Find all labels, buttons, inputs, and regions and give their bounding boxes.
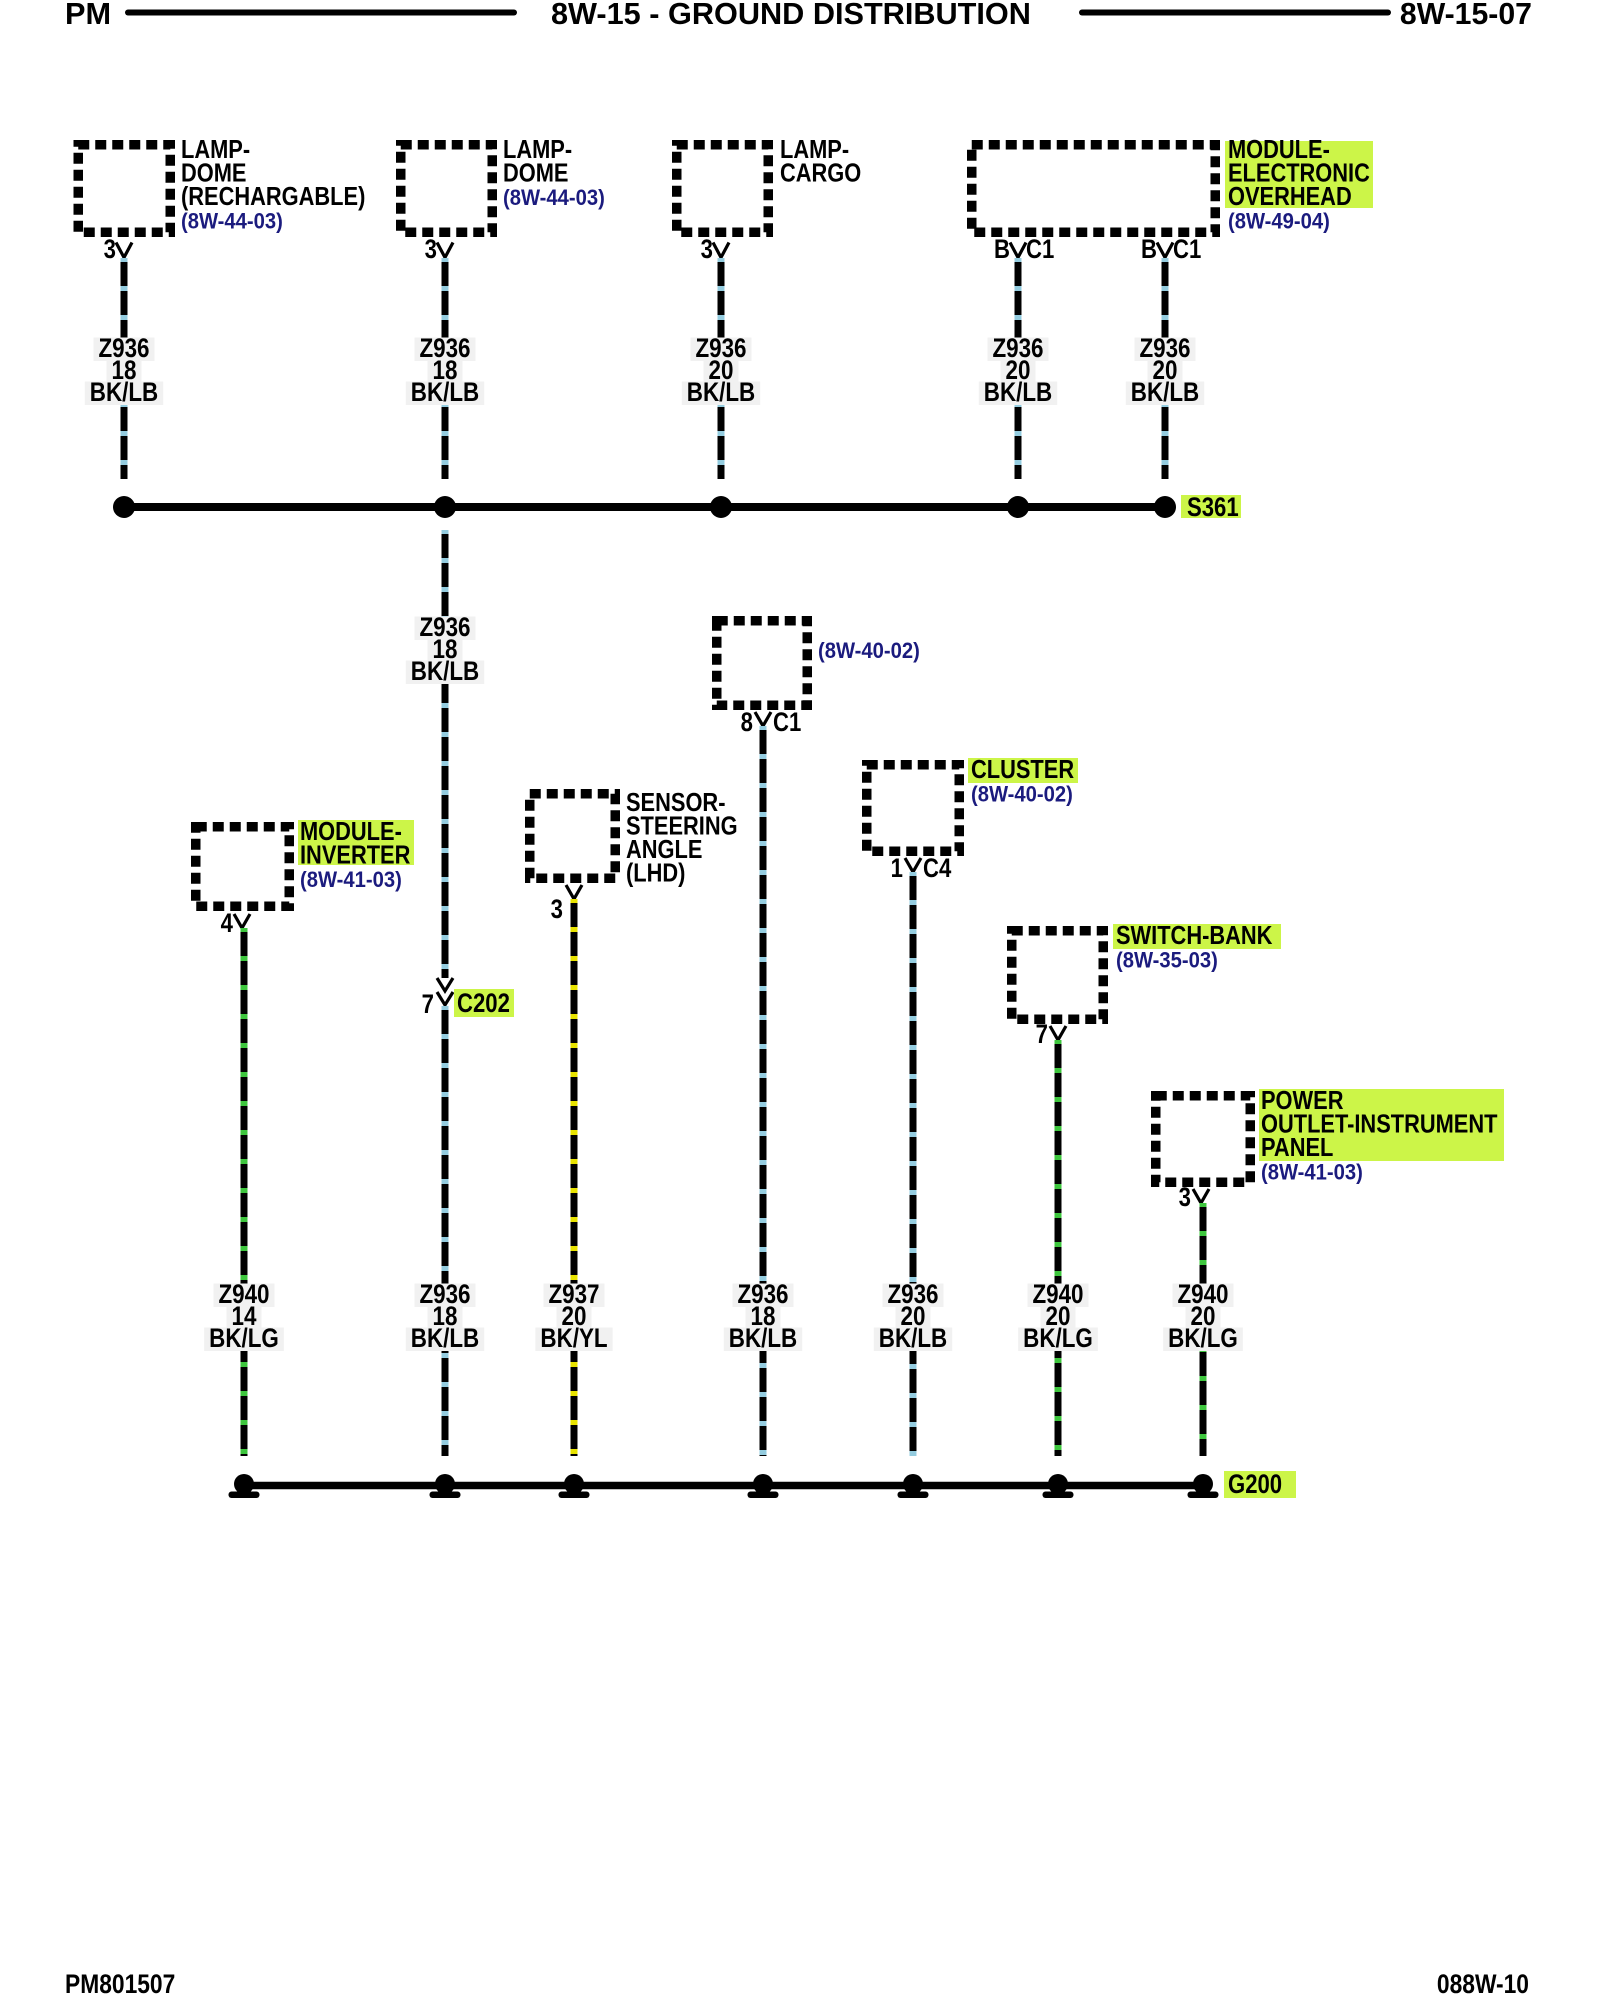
wire label Z936 18 BK/LB	[93, 338, 154, 362]
svg-text:BK/LB: BK/LB	[879, 1324, 947, 1353]
svg-text:PANEL: PANEL	[1261, 1133, 1333, 1162]
svg-text:C1: C1	[1026, 235, 1055, 265]
svg-text:(8W-44-03): (8W-44-03)	[503, 186, 605, 210]
wire label Z937 20 BK/YL	[543, 1284, 604, 1308]
wire Z936 18 BK/LB	[760, 726, 767, 1456]
wire label Z936 20 BK/LB	[987, 338, 1048, 362]
connector box SWITCH-BANK	[1012, 931, 1104, 1020]
junction dot at x=445	[434, 496, 456, 518]
ground bus G200	[244, 1482, 1204, 1490]
svg-text:PM801507: PM801507	[65, 1969, 175, 1999]
wire label Z940 20 BK/LG	[1172, 1284, 1233, 1308]
svg-text:B: B	[994, 235, 1010, 265]
ground stud at x=445	[435, 1474, 455, 1494]
connector box LAMP-CARGO	[677, 145, 769, 233]
connector box (8W-40-02)	[717, 621, 808, 706]
svg-text:3: 3	[701, 235, 713, 265]
wire label Z936 18 BK/LB	[732, 1284, 793, 1308]
svg-text:B: B	[1141, 235, 1157, 265]
junction dot at x=1165	[1154, 496, 1176, 518]
wire Z936 18 BK/LB (S361 to C202)	[442, 530, 449, 978]
svg-text:SWITCH-BANK: SWITCH-BANK	[1116, 921, 1273, 950]
wire Z936 20 BK/LB	[1162, 258, 1169, 479]
svg-text:3: 3	[425, 235, 437, 265]
wire Z940 20 BK/LG	[1200, 1203, 1207, 1456]
svg-text:(RECHARGABLE): (RECHARGABLE)	[181, 182, 365, 211]
svg-text:C4: C4	[923, 854, 952, 884]
wire label Z936 20 BK/LB	[690, 338, 751, 362]
svg-text:(8W-49-04): (8W-49-04)	[1228, 210, 1330, 234]
svg-text:BK/LG: BK/LG	[1023, 1324, 1093, 1353]
svg-text:BK/LB: BK/LB	[411, 657, 479, 686]
connector box MODULE-ELECTRONIC OVERHEAD	[972, 145, 1216, 233]
svg-text:3: 3	[551, 895, 563, 925]
svg-text:C202: C202	[457, 989, 510, 1019]
splice label S361	[1181, 495, 1241, 518]
wire Z937 20 BK/YL	[571, 899, 578, 1456]
ground stud at x=913	[903, 1474, 923, 1494]
svg-text:OVERHEAD: OVERHEAD	[1228, 182, 1352, 211]
svg-text:(8W-41-03): (8W-41-03)	[1261, 1161, 1363, 1185]
svg-text:8W-15 - GROUND DISTRIBUTION: 8W-15 - GROUND DISTRIBUTION	[551, 0, 1031, 31]
connector box POWER OUTLET-INSTRUMENT PANEL	[1156, 1096, 1251, 1183]
ground stud at x=574	[564, 1474, 584, 1494]
svg-text:S361: S361	[1187, 493, 1239, 523]
ground stud at x=763	[753, 1474, 773, 1494]
wire Z936 20 BK/LB	[910, 872, 917, 1456]
svg-text:(8W-40-02): (8W-40-02)	[971, 783, 1073, 807]
ground stud at x=244	[234, 1474, 254, 1494]
svg-text:DOME: DOME	[503, 159, 568, 188]
ground stud at x=1203	[1193, 1474, 1213, 1494]
svg-text:BK/LB: BK/LB	[729, 1324, 797, 1353]
svg-text:7: 7	[422, 990, 434, 1020]
wire Z936 20 BK/LB	[718, 258, 725, 479]
svg-text:BK/LB: BK/LB	[411, 1324, 479, 1353]
connector box MODULE-INVERTER	[196, 827, 290, 907]
svg-text:BK/LG: BK/LG	[209, 1324, 279, 1353]
svg-text:CLUSTER: CLUSTER	[971, 755, 1074, 784]
svg-text:(8W-35-03): (8W-35-03)	[1116, 949, 1218, 973]
svg-text:(8W-40-02): (8W-40-02)	[818, 639, 920, 663]
connector box LAMP-DOME (RECHARGABLE)	[78, 145, 170, 233]
wire label Z936 18 BK/LB	[414, 1284, 475, 1308]
wire label Z940 14 BK/LG	[213, 1284, 274, 1308]
svg-text:(8W-41-03): (8W-41-03)	[300, 868, 402, 892]
svg-text:G200: G200	[1228, 1470, 1282, 1500]
connector box CLUSTER	[867, 765, 960, 852]
header rule left	[128, 10, 514, 16]
svg-text:7: 7	[1036, 1020, 1048, 1050]
wire Z936 18 BK/LB	[442, 258, 449, 479]
connector box SENSOR-STEERING ANGLE (LHD)	[530, 794, 616, 879]
wire label Z936 18 BK/LB	[414, 617, 475, 641]
svg-text:(LHD): (LHD)	[626, 859, 685, 888]
svg-text:3: 3	[1179, 1183, 1191, 1213]
inline connector C202	[437, 978, 453, 991]
wire Z940 14 BK/LG	[241, 928, 248, 1456]
svg-text:4: 4	[221, 909, 234, 939]
svg-text:1: 1	[891, 854, 904, 884]
svg-text:088W-10: 088W-10	[1437, 1969, 1529, 1999]
header rule right	[1082, 10, 1388, 16]
svg-text:BK/LB: BK/LB	[984, 378, 1052, 407]
svg-text:(8W-44-03): (8W-44-03)	[181, 210, 283, 234]
svg-text:8W-15-07: 8W-15-07	[1400, 0, 1532, 31]
wire Z940 20 BK/LG	[1055, 1040, 1062, 1456]
svg-text:INVERTER: INVERTER	[300, 841, 410, 870]
junction dot at x=1018	[1007, 496, 1029, 518]
svg-text:C1: C1	[1173, 235, 1202, 265]
svg-text:PM: PM	[65, 0, 111, 31]
connector box LAMP-DOME	[401, 145, 493, 233]
wire label Z940 20 BK/LG	[1027, 1284, 1088, 1308]
svg-text:BK/LG: BK/LG	[1168, 1324, 1238, 1353]
svg-text:BK/LB: BK/LB	[411, 378, 479, 407]
ground label G200	[1224, 1471, 1296, 1498]
splice bus S361	[124, 503, 1165, 511]
svg-text:3: 3	[104, 235, 116, 265]
svg-text:BK/LB: BK/LB	[1131, 378, 1199, 407]
svg-text:BK/LB: BK/LB	[90, 378, 158, 407]
svg-text:CARGO: CARGO	[780, 159, 861, 188]
ground stud at x=1058	[1048, 1474, 1068, 1494]
wire label Z936 18 BK/LB	[414, 338, 475, 362]
svg-text:BK/YL: BK/YL	[540, 1324, 607, 1353]
wire Z936 20 BK/LB	[1015, 258, 1022, 479]
wire Z936 18 BK/LB	[121, 258, 128, 479]
svg-text:BK/LB: BK/LB	[687, 378, 755, 407]
svg-text:8: 8	[741, 708, 753, 738]
wire label Z936 20 BK/LB	[882, 1284, 943, 1308]
junction dot at x=721	[710, 496, 732, 518]
junction dot at x=124	[113, 496, 135, 518]
svg-text:C1: C1	[773, 708, 802, 738]
wire Z936 18 BK/LB (C202 to G200)	[442, 1006, 449, 1456]
wire label Z936 20 BK/LB	[1134, 338, 1195, 362]
